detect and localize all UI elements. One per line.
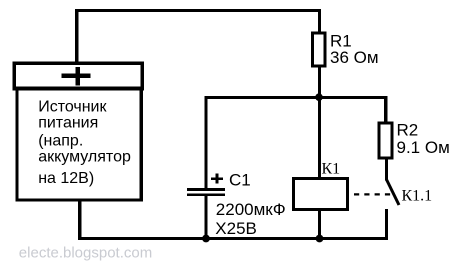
svg-text:(напр.: (напр. <box>38 133 83 150</box>
svg-text:2200мкФ: 2200мкФ <box>216 200 286 219</box>
svg-text:C1: C1 <box>229 170 251 189</box>
svg-text:9.1 Ом: 9.1 Ом <box>397 138 450 157</box>
svg-text:аккумулятор: аккумулятор <box>38 149 131 166</box>
svg-text:36 Ом: 36 Ом <box>330 48 379 67</box>
svg-text:Источник: Источник <box>38 98 107 115</box>
svg-text:Х25В: Х25В <box>215 219 257 238</box>
svg-text:R2: R2 <box>397 121 419 140</box>
svg-text:на 12В): на 12В) <box>38 170 94 187</box>
svg-text:питания: питания <box>38 115 98 132</box>
svg-text:К1: К1 <box>322 161 341 178</box>
svg-text:К1.1: К1.1 <box>402 188 433 205</box>
svg-text:electe.blogspot.com: electe.blogspot.com <box>19 244 152 261</box>
